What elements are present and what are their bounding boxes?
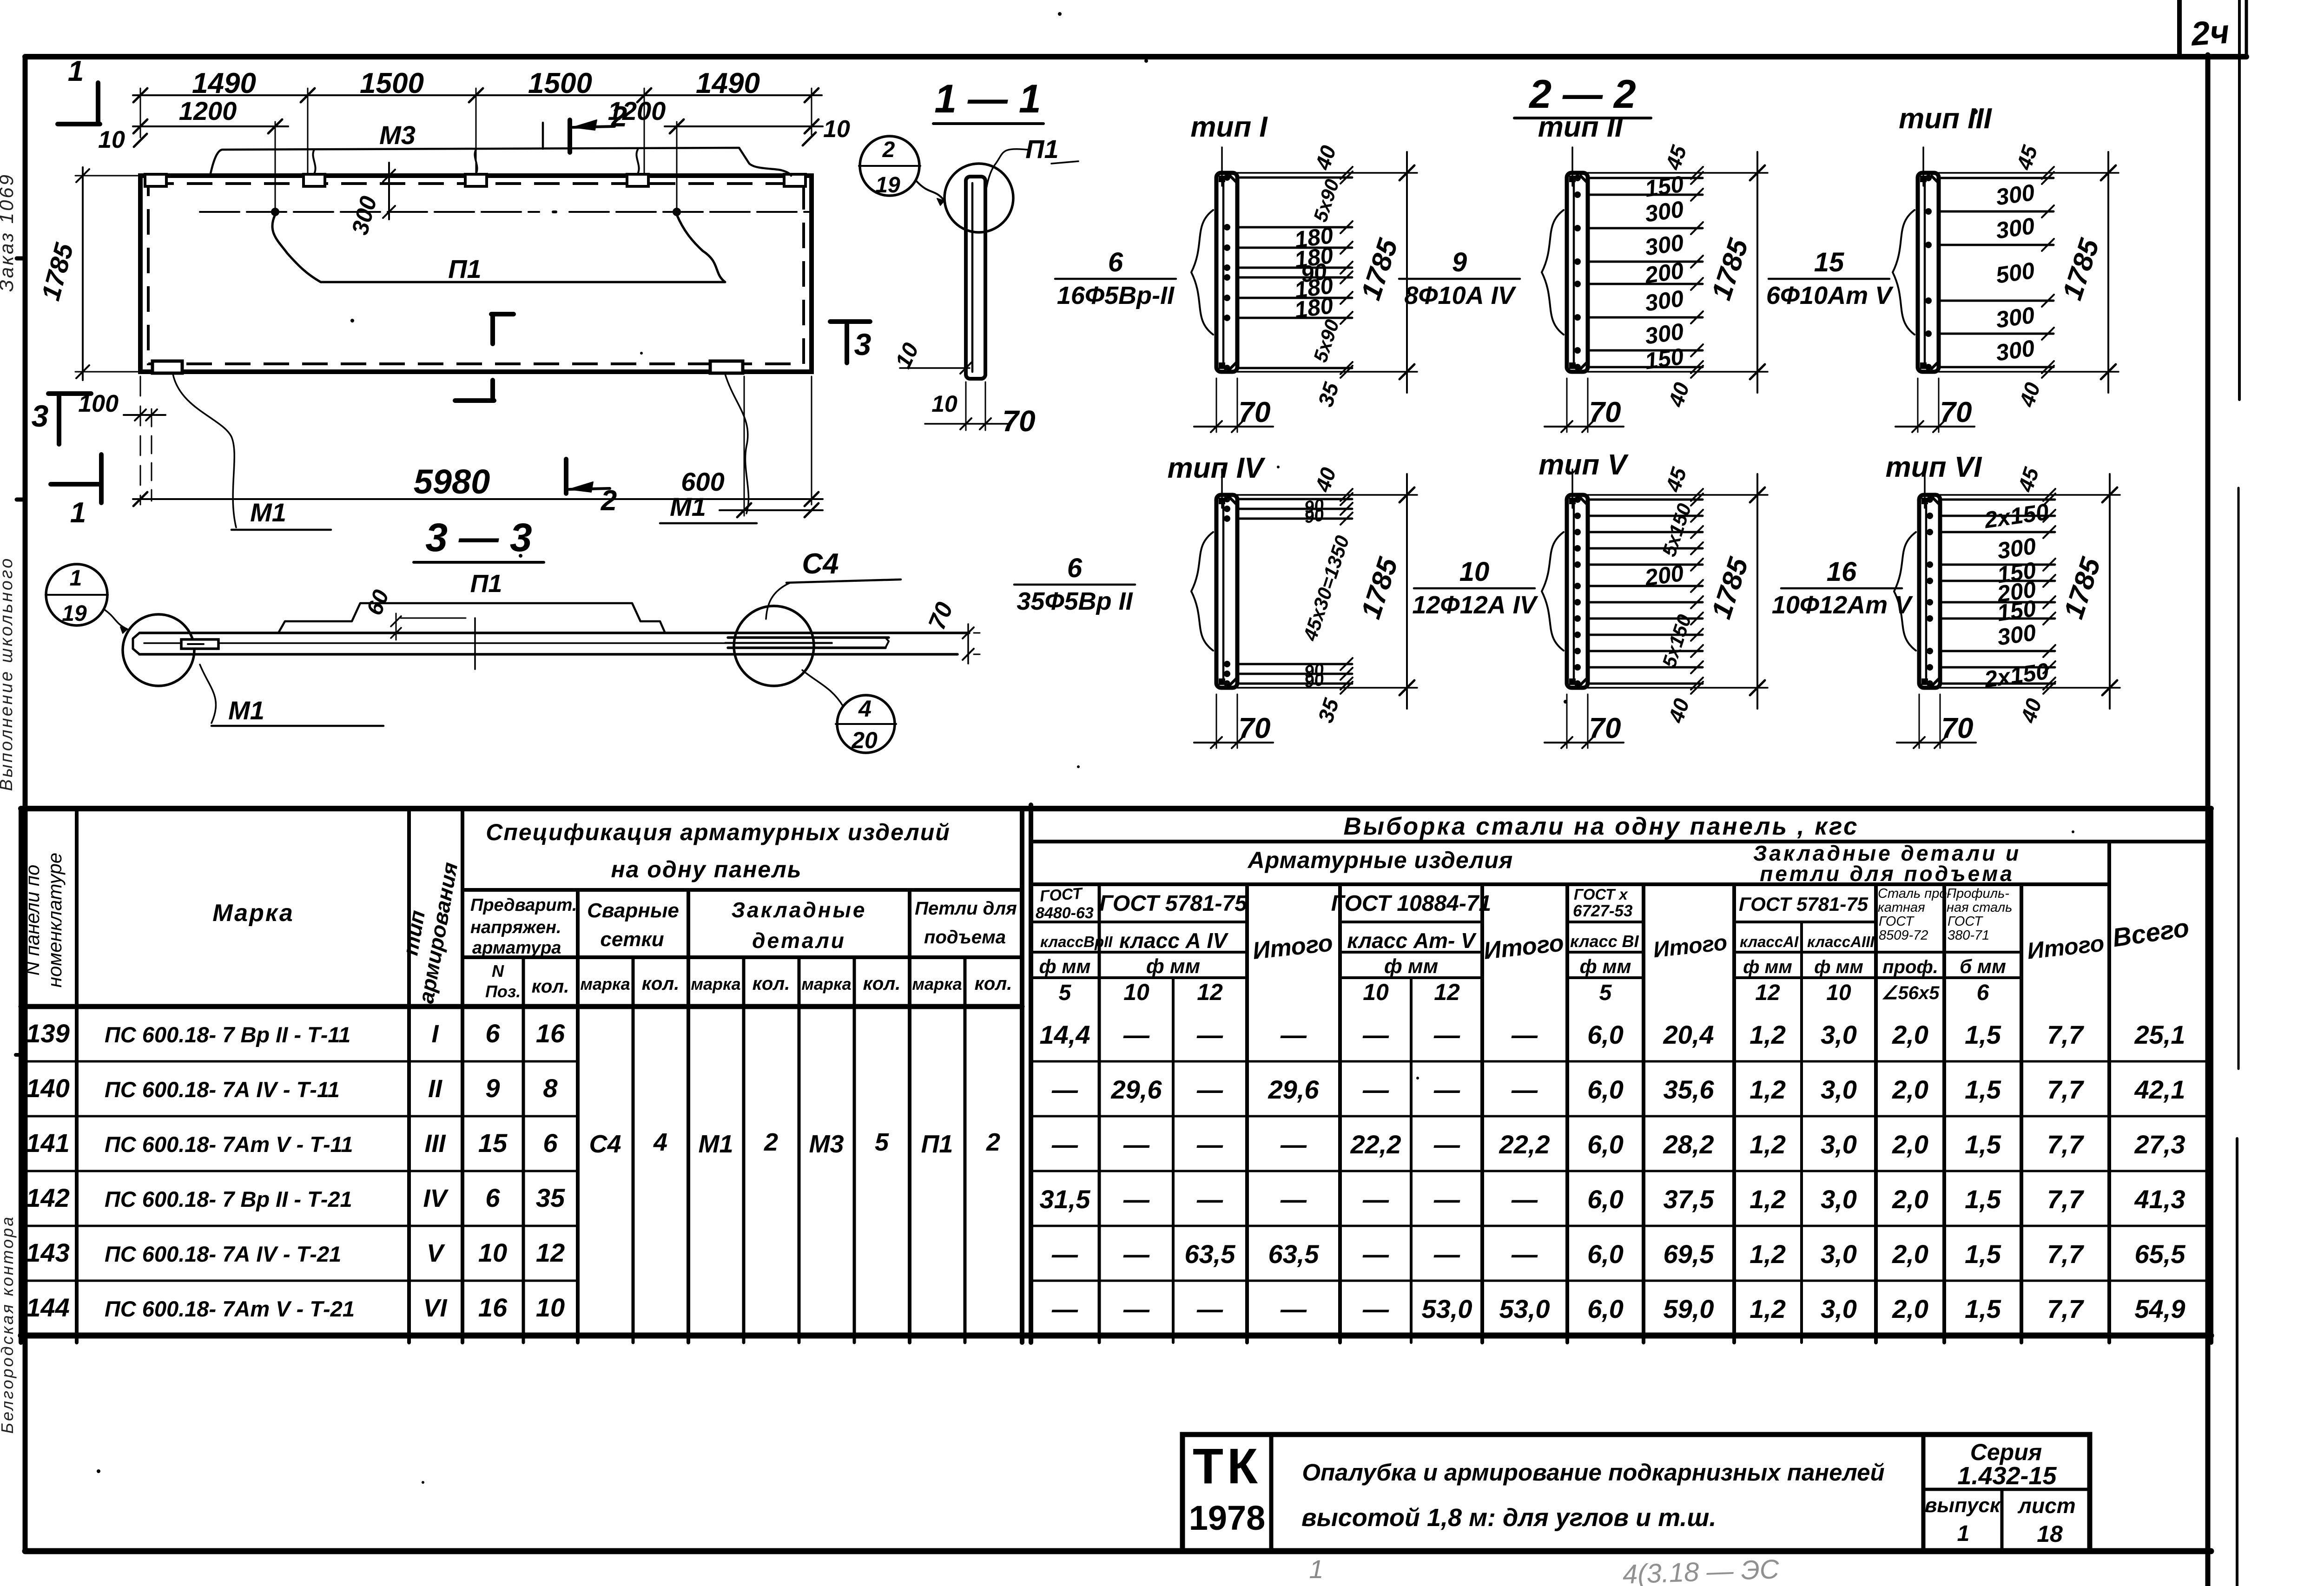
svg-text:2,0: 2,0	[1892, 1075, 1928, 1104]
svg-text:300: 300	[347, 193, 382, 237]
svg-text:12: 12	[1434, 979, 1460, 1005]
svg-text:—: —	[1196, 1185, 1223, 1214]
svg-text:марка: марка	[580, 974, 630, 994]
svg-text:—: —	[1051, 1294, 1078, 1323]
svg-text:ПС 600.18- 7Ат V - Т-11: ПС 600.18- 7Ат V - Т-11	[105, 1132, 353, 1157]
svg-text:ГОСТ 5781-75: ГОСТ 5781-75	[1739, 893, 1868, 915]
svg-text:1: 1	[1957, 1521, 1970, 1546]
svg-text:142: 142	[26, 1183, 69, 1212]
svg-text:2: 2	[611, 101, 627, 133]
svg-text:6,0: 6,0	[1587, 1130, 1624, 1159]
svg-text:—: —	[1362, 1239, 1389, 1269]
svg-text:—: —	[1362, 1185, 1389, 1214]
svg-text:б мм: б мм	[1960, 955, 2006, 977]
svg-text:ф мм: ф мм	[1580, 955, 1631, 977]
svg-text:150: 150	[1643, 343, 1685, 375]
svg-text:1978: 1978	[1189, 1499, 1266, 1537]
svg-text:45: 45	[2013, 464, 2044, 495]
svg-text:Поз.: Поз.	[485, 982, 521, 1001]
svg-text:классВрII: классВрII	[1040, 933, 1113, 950]
svg-text:35: 35	[1313, 379, 1344, 409]
svg-text:ГОСТ 10884-71: ГОСТ 10884-71	[1331, 891, 1492, 916]
svg-text:—: —	[1123, 1239, 1150, 1269]
svg-text:1,5: 1,5	[1965, 1294, 2001, 1323]
svg-text:10Ф12Ат V: 10Ф12Ат V	[1772, 591, 1913, 619]
svg-text:7,7: 7,7	[2047, 1239, 2085, 1269]
svg-text:2,0: 2,0	[1892, 1239, 1928, 1269]
svg-text:1,5: 1,5	[1965, 1075, 2001, 1104]
svg-text:—: —	[1362, 1075, 1389, 1104]
svg-text:М3: М3	[809, 1130, 844, 1158]
svg-text:петли для подъема: петли для подъема	[1760, 862, 2014, 886]
svg-text:42,1: 42,1	[2134, 1075, 2185, 1104]
svg-text:Арматурные изделия: Арматурные изделия	[1247, 847, 1513, 873]
svg-text:5980: 5980	[414, 462, 490, 501]
svg-text:3,0: 3,0	[1821, 1239, 1857, 1269]
svg-text:С4: С4	[589, 1130, 621, 1158]
svg-text:29,6: 29,6	[1111, 1075, 1162, 1104]
svg-text:35,6: 35,6	[1664, 1075, 1715, 1104]
svg-text:144: 144	[26, 1293, 69, 1322]
svg-text:35Ф5Вр II: 35Ф5Вр II	[1017, 587, 1133, 615]
svg-text:ф мм: ф мм	[1384, 955, 1438, 978]
svg-text:1,5: 1,5	[1965, 1239, 2001, 1269]
svg-text:П1: П1	[448, 254, 481, 283]
svg-text:70: 70	[1239, 396, 1271, 428]
svg-text:8: 8	[543, 1073, 558, 1103]
svg-text:Закладные: Закладные	[732, 898, 867, 922]
svg-text:—: —	[1433, 1185, 1460, 1214]
svg-text:N панели по: N панели по	[21, 865, 43, 976]
svg-text:1,2: 1,2	[1750, 1075, 1786, 1104]
svg-text:2: 2	[764, 1128, 778, 1156]
svg-text:1785: 1785	[1355, 234, 1404, 303]
svg-text:15: 15	[1814, 247, 1844, 277]
svg-text:20,4: 20,4	[1663, 1020, 1714, 1049]
svg-text:7,7: 7,7	[2047, 1075, 2085, 1104]
svg-text:70: 70	[1002, 404, 1035, 438]
svg-text:15: 15	[478, 1128, 508, 1158]
svg-text:проф.: проф.	[1882, 957, 1938, 977]
svg-text:3,0: 3,0	[1821, 1294, 1857, 1323]
svg-text:—: —	[1511, 1020, 1538, 1049]
svg-text:класс ВI: класс ВI	[1570, 932, 1639, 951]
svg-text:тип III: тип III	[1899, 103, 1993, 135]
svg-text:40: 40	[2016, 695, 2047, 726]
svg-text:70: 70	[1589, 712, 1621, 744]
svg-text:31,5: 31,5	[1040, 1185, 1091, 1214]
svg-text:класс А IV: класс А IV	[1119, 928, 1228, 953]
svg-text:ПС 600.18- 7А IV - Т-11: ПС 600.18- 7А IV - Т-11	[105, 1077, 340, 1102]
svg-text:22,2: 22,2	[1499, 1130, 1550, 1159]
svg-text:ГОСТ: ГОСТ	[1948, 914, 1983, 929]
svg-text:—: —	[1362, 1020, 1389, 1049]
svg-text:1.432-15: 1.432-15	[1957, 1462, 2057, 1490]
svg-text:70: 70	[1940, 396, 1972, 428]
svg-text:—: —	[1511, 1185, 1538, 1214]
svg-text:ПС 600.18- 7А IV - Т-21: ПС 600.18- 7А IV - Т-21	[105, 1242, 341, 1266]
svg-text:номенклатуре: номенклатуре	[44, 853, 66, 987]
svg-text:—: —	[1433, 1239, 1460, 1269]
svg-text:—: —	[1433, 1075, 1460, 1104]
svg-text:М1: М1	[670, 492, 706, 521]
svg-text:10: 10	[98, 126, 125, 153]
svg-text:6,0: 6,0	[1587, 1075, 1624, 1104]
svg-text:40: 40	[1664, 379, 1694, 410]
svg-text:41,3: 41,3	[2134, 1185, 2185, 1214]
svg-text:139: 139	[26, 1019, 69, 1048]
svg-text:1,2: 1,2	[1750, 1239, 1786, 1269]
svg-text:—: —	[1280, 1020, 1307, 1049]
svg-text:300: 300	[1643, 285, 1685, 316]
svg-text:19: 19	[875, 173, 900, 197]
svg-text:1,2: 1,2	[1750, 1130, 1786, 1159]
svg-text:60: 60	[362, 586, 394, 619]
svg-text:марка: марка	[912, 974, 962, 994]
svg-text:7,7: 7,7	[2047, 1020, 2085, 1049]
svg-text:М1: М1	[698, 1130, 733, 1158]
svg-text:кол.: кол.	[863, 974, 901, 994]
svg-text:6727-53: 6727-53	[1573, 902, 1633, 920]
svg-text:ГОСТ: ГОСТ	[1039, 885, 1084, 905]
svg-text:1: 1	[70, 497, 86, 529]
svg-text:лист: лист	[2017, 1494, 2075, 1518]
svg-text:Профиль-: Профиль-	[1947, 886, 2009, 901]
svg-text:Предварит.: Предварит.	[470, 895, 577, 915]
svg-text:1,2: 1,2	[1750, 1185, 1786, 1214]
svg-text:45: 45	[1661, 142, 1691, 173]
svg-text:12Ф12А IV: 12Ф12А IV	[1412, 591, 1538, 619]
svg-text:1: 1	[70, 566, 82, 591]
svg-text:5: 5	[1599, 981, 1612, 1005]
svg-text:70: 70	[1589, 396, 1621, 428]
svg-text:1785: 1785	[1705, 553, 1754, 622]
svg-text:2,0: 2,0	[1892, 1130, 1928, 1159]
svg-text:40: 40	[2014, 379, 2045, 410]
svg-text:380-71: 380-71	[1948, 928, 1989, 943]
svg-text:300: 300	[1643, 196, 1685, 227]
svg-text:10: 10	[536, 1293, 565, 1322]
svg-text:12: 12	[1755, 981, 1780, 1005]
svg-text:ф мм: ф мм	[1146, 955, 1200, 978]
svg-text:III: III	[424, 1130, 446, 1158]
svg-text:300: 300	[1995, 619, 2038, 651]
svg-text:1: 1	[1309, 1554, 1323, 1584]
svg-text:5: 5	[875, 1128, 889, 1156]
svg-text:300: 300	[1994, 302, 2036, 333]
svg-text:10: 10	[931, 391, 957, 417]
svg-text:Сталь про-: Сталь про-	[1878, 886, 1951, 901]
svg-text:1785: 1785	[2056, 234, 2105, 303]
svg-text:4(3.18 — ЭС: 4(3.18 — ЭС	[1622, 1554, 1780, 1586]
svg-text:141: 141	[26, 1128, 69, 1158]
svg-text:6,0: 6,0	[1587, 1185, 1624, 1214]
svg-text:—: —	[1280, 1294, 1307, 1323]
svg-text:45: 45	[1661, 464, 1691, 495]
svg-text:2,0: 2,0	[1892, 1185, 1928, 1214]
svg-text:ф мм: ф мм	[1039, 955, 1091, 977]
svg-text:—: —	[1123, 1294, 1150, 1323]
svg-text:1 — 1: 1 — 1	[934, 77, 1041, 121]
svg-text:300: 300	[1643, 230, 1685, 261]
svg-text:П1: П1	[470, 570, 502, 598]
svg-text:Сварные: Сварные	[587, 899, 679, 922]
svg-text:6,0: 6,0	[1587, 1020, 1624, 1049]
svg-text:5x150: 5x150	[1658, 612, 1696, 671]
svg-text:тип VI: тип VI	[1886, 451, 1982, 483]
svg-text:54,9: 54,9	[2135, 1294, 2185, 1323]
svg-text:7,7: 7,7	[2047, 1185, 2085, 1214]
svg-text:1,5: 1,5	[1965, 1185, 2001, 1214]
svg-text:90: 90	[1303, 670, 1325, 691]
svg-text:—: —	[1196, 1130, 1223, 1159]
svg-text:8480-63: 8480-63	[1036, 904, 1094, 922]
svg-text:—: —	[1051, 1130, 1078, 1159]
svg-text:1,2: 1,2	[1750, 1020, 1786, 1049]
svg-text:на одну панель: на одну панель	[611, 856, 802, 882]
svg-text:3,0: 3,0	[1821, 1075, 1857, 1104]
svg-text:16Ф5Вр-II: 16Ф5Вр-II	[1057, 282, 1175, 309]
svg-text:40: 40	[1664, 695, 1694, 726]
svg-text:16: 16	[1827, 557, 1857, 587]
svg-text:1: 1	[68, 55, 84, 87]
svg-text:6: 6	[1108, 247, 1123, 277]
svg-text:ГОСТ 5781-75: ГОСТ 5781-75	[1099, 891, 1248, 916]
svg-text:—: —	[1433, 1020, 1460, 1049]
svg-text:М3: М3	[379, 120, 416, 150]
svg-text:П1: П1	[1025, 134, 1058, 164]
svg-text:1200: 1200	[179, 96, 237, 125]
svg-text:ГОСТ х: ГОСТ х	[1574, 886, 1628, 903]
svg-text:1785: 1785	[1705, 234, 1754, 303]
svg-text:6: 6	[1067, 553, 1083, 583]
svg-text:Выполнение школьного: Выполнение школьного	[0, 557, 16, 791]
svg-text:классАIII: классАIII	[1807, 933, 1875, 950]
svg-text:Марка: Марка	[212, 900, 294, 927]
svg-text:кол.: кол.	[975, 974, 1012, 994]
svg-text:марка: марка	[691, 974, 740, 994]
svg-text:ПС 600.18- 7 Вр II - Т-21: ПС 600.18- 7 Вр II - Т-21	[105, 1187, 352, 1211]
svg-text:2: 2	[986, 1128, 1000, 1156]
svg-text:18: 18	[2037, 1521, 2063, 1547]
svg-text:10: 10	[478, 1238, 507, 1267]
svg-text:9: 9	[485, 1073, 500, 1103]
svg-text:6: 6	[1977, 981, 1989, 1005]
svg-text:70: 70	[1239, 712, 1271, 744]
svg-text:27,3: 27,3	[2134, 1130, 2185, 1159]
svg-text:16: 16	[478, 1293, 508, 1322]
svg-text:3,0: 3,0	[1821, 1020, 1857, 1049]
svg-text:2ч: 2ч	[2189, 13, 2231, 53]
svg-text:—: —	[1511, 1239, 1538, 1269]
svg-text:12: 12	[536, 1238, 565, 1267]
svg-text:М1: М1	[228, 696, 264, 725]
svg-text:37,5: 37,5	[1664, 1185, 1715, 1214]
svg-text:N: N	[492, 961, 504, 981]
svg-text:1490: 1490	[192, 67, 256, 99]
svg-text:2x150: 2x150	[1982, 499, 2051, 533]
svg-text:35: 35	[536, 1183, 565, 1212]
svg-text:кол.: кол.	[642, 974, 680, 994]
svg-text:300: 300	[1994, 179, 2036, 211]
svg-text:6: 6	[485, 1183, 500, 1212]
svg-text:8509-72: 8509-72	[1879, 928, 1928, 943]
svg-text:∠56x5: ∠56x5	[1882, 983, 1940, 1003]
svg-text:—: —	[1433, 1130, 1460, 1159]
svg-text:С4: С4	[802, 548, 838, 580]
svg-text:Итого: Итого	[1652, 930, 1728, 962]
svg-text:классАI: классАI	[1740, 933, 1799, 950]
svg-text:Заказ 1069: Заказ 1069	[0, 173, 17, 292]
svg-text:1500: 1500	[528, 67, 592, 99]
svg-text:12: 12	[1197, 979, 1223, 1005]
svg-text:9: 9	[1452, 247, 1467, 277]
svg-text:6,0: 6,0	[1587, 1294, 1624, 1323]
svg-text:ная сталь: ная сталь	[1947, 900, 2012, 915]
svg-text:—: —	[1123, 1185, 1150, 1214]
svg-text:2,0: 2,0	[1892, 1020, 1928, 1049]
svg-text:10: 10	[1459, 557, 1490, 587]
svg-text:ф мм: ф мм	[1743, 957, 1792, 977]
svg-text:выпуск: выпуск	[1925, 1494, 2001, 1517]
svg-text:300: 300	[1994, 213, 2036, 244]
svg-text:кол.: кол.	[532, 976, 569, 997]
svg-text:—: —	[1051, 1075, 1078, 1104]
svg-text:Итого: Итого	[1251, 929, 1334, 965]
svg-text:арматура: арматура	[472, 938, 561, 958]
svg-text:6: 6	[543, 1128, 558, 1158]
svg-text:VI: VI	[423, 1294, 447, 1322]
svg-text:29,6: 29,6	[1268, 1075, 1320, 1104]
svg-text:10: 10	[1826, 981, 1851, 1005]
svg-text:Выборка стали на: Выборка стали на одну панель , кгс	[1343, 813, 1859, 840]
svg-text:200: 200	[1643, 257, 1685, 289]
svg-text:25,1: 25,1	[2134, 1020, 2185, 1049]
svg-text:1,5: 1,5	[1965, 1020, 2001, 1049]
svg-text:—: —	[1362, 1294, 1389, 1323]
svg-text:10: 10	[823, 116, 850, 143]
svg-text:детали: детали	[752, 928, 846, 953]
svg-text:подъема: подъема	[924, 927, 1006, 948]
svg-text:ГОСТ: ГОСТ	[1879, 914, 1915, 929]
svg-text:Итого: Итого	[1482, 929, 1565, 965]
svg-text:—: —	[1051, 1239, 1078, 1269]
svg-text:14,4: 14,4	[1040, 1020, 1090, 1049]
svg-text:140: 140	[26, 1073, 69, 1103]
svg-text:20: 20	[851, 727, 878, 753]
svg-text:ПС 600.18- 7 Вр II - Т-11: ПС 600.18- 7 Вр II - Т-11	[105, 1022, 350, 1047]
svg-text:кол.: кол.	[753, 974, 790, 994]
svg-text:ТК: ТК	[1193, 1438, 1261, 1494]
svg-text:3 — 3: 3 — 3	[425, 515, 532, 560]
svg-text:3,0: 3,0	[1821, 1185, 1857, 1214]
svg-text:марка: марка	[801, 974, 851, 994]
svg-text:—: —	[1280, 1130, 1307, 1159]
svg-text:69,5: 69,5	[1664, 1239, 1715, 1269]
svg-text:2 — 2: 2 — 2	[1528, 72, 1636, 117]
svg-text:1785: 1785	[1355, 553, 1404, 622]
svg-text:Опалубка и армирование подкарн: Опалубка и армирование подкарнизных пане…	[1302, 1459, 1884, 1486]
svg-text:6Ф10Ат V: 6Ф10Ат V	[1766, 282, 1894, 309]
svg-text:7,7: 7,7	[2047, 1294, 2085, 1323]
svg-text:8Ф10А IV: 8Ф10А IV	[1404, 282, 1516, 309]
svg-text:10: 10	[1123, 979, 1149, 1005]
svg-text:тип IV: тип IV	[1168, 452, 1266, 484]
svg-text:сетки: сетки	[600, 928, 664, 951]
svg-text:65,5: 65,5	[2135, 1239, 2186, 1269]
svg-text:—: —	[1123, 1020, 1150, 1049]
svg-text:—: —	[1280, 1185, 1307, 1214]
svg-text:28,2: 28,2	[1663, 1130, 1714, 1159]
svg-text:45x30=1350: 45x30=1350	[1299, 533, 1353, 644]
svg-text:3: 3	[854, 327, 871, 362]
svg-text:Спецификация арматурных изде: Спецификация арматурных изделий	[486, 819, 951, 845]
svg-text:—: —	[1196, 1075, 1223, 1104]
svg-text:Белгородская контора: Белгородская контора	[0, 1215, 17, 1434]
svg-text:ф мм: ф мм	[1814, 957, 1863, 977]
svg-text:6: 6	[485, 1019, 500, 1048]
svg-text:II: II	[428, 1075, 442, 1103]
svg-text:5: 5	[1059, 981, 1072, 1005]
svg-text:1490: 1490	[696, 67, 760, 99]
svg-text:П1: П1	[921, 1130, 953, 1158]
svg-text:3: 3	[32, 399, 49, 433]
svg-text:тип V: тип V	[1538, 449, 1629, 481]
svg-text:—: —	[1123, 1130, 1150, 1159]
svg-text:2: 2	[601, 485, 617, 517]
svg-text:V: V	[427, 1239, 445, 1267]
svg-text:70: 70	[924, 599, 958, 633]
svg-text:10: 10	[1363, 979, 1389, 1005]
svg-text:59,0: 59,0	[1664, 1294, 1714, 1323]
svg-text:500: 500	[1994, 257, 2036, 289]
svg-text:35: 35	[1313, 695, 1344, 725]
svg-text:300: 300	[1994, 335, 2036, 366]
svg-text:7,7: 7,7	[2047, 1130, 2085, 1159]
svg-text:2,0: 2,0	[1892, 1294, 1928, 1323]
svg-text:22,2: 22,2	[1350, 1130, 1401, 1159]
svg-text:10: 10	[891, 339, 924, 372]
svg-text:напряжен.: напряжен.	[470, 918, 561, 937]
svg-text:—: —	[1196, 1294, 1223, 1323]
svg-text:1785: 1785	[36, 240, 79, 303]
svg-text:IV: IV	[423, 1185, 449, 1212]
svg-text:1,5: 1,5	[1965, 1130, 2001, 1159]
svg-text:1,2: 1,2	[1750, 1294, 1786, 1323]
svg-text:53,0: 53,0	[1422, 1294, 1472, 1323]
svg-text:катная: катная	[1878, 900, 1925, 915]
svg-text:3,0: 3,0	[1821, 1130, 1857, 1159]
svg-text:высотой 1,8 м: для углов: высотой 1,8 м: для углов и т.ш.	[1301, 1504, 1716, 1532]
svg-text:63,5: 63,5	[1185, 1239, 1236, 1269]
svg-text:5x90: 5x90	[1309, 177, 1343, 224]
svg-text:ПС 600.18- 7Ат V - Т-21: ПС 600.18- 7Ат V - Т-21	[105, 1296, 355, 1321]
svg-text:16: 16	[536, 1019, 565, 1048]
svg-text:1785: 1785	[2058, 553, 2106, 622]
svg-text:40: 40	[1310, 142, 1341, 173]
svg-text:класс Ат- V: класс Ат- V	[1347, 928, 1477, 953]
svg-text:1500: 1500	[360, 67, 424, 99]
svg-text:—: —	[1196, 1020, 1223, 1049]
svg-text:Итого: Итого	[2026, 930, 2106, 964]
svg-text:45: 45	[2012, 142, 2042, 173]
svg-text:5x150: 5x150	[1658, 501, 1696, 559]
svg-text:2: 2	[882, 138, 895, 162]
svg-text:40: 40	[1310, 464, 1341, 495]
svg-text:М1: М1	[250, 498, 286, 527]
svg-text:—: —	[1511, 1075, 1538, 1104]
svg-text:Петли для: Петли для	[915, 898, 1017, 919]
